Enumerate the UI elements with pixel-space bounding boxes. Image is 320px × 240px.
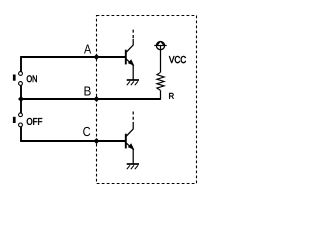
R label	[169, 93, 174, 99]
wire: Q2 emitter to ground	[132, 149, 134, 164]
wire: Q2 collector dashed stub	[132, 112, 134, 125]
ground below Q2	[127, 164, 139, 169]
transistor Q1 (NPN, base on node A)	[126, 45, 135, 66]
wire A horizontal (bus to Q1 base)	[20, 56, 126, 58]
wire: Q1 collector solid stub	[132, 39, 134, 45]
node A label	[84, 45, 91, 54]
transistor Q2 (NPN, base on node C)	[126, 129, 135, 150]
wire C horizontal (bus to Q2 base)	[20, 140, 126, 142]
node A junction dot	[94, 54, 100, 60]
component boundary dashed box	[97, 16, 197, 184]
node B junction dot	[94, 96, 100, 102]
wire: Q1 collector dashed stub	[132, 28, 134, 38]
junction dot on bus at node B	[18, 96, 24, 102]
wire: resistor R to node B	[160, 90, 162, 99]
wire: VCC to resistor R	[160, 49, 162, 72]
node B label	[84, 87, 90, 96]
wire: left bus segment OFF switch to C	[20, 127, 22, 142]
node C label	[83, 127, 90, 136]
VCC label	[169, 56, 186, 63]
ON value label	[27, 75, 37, 82]
wire: Q2 collector solid stub	[132, 124, 134, 129]
resistor R	[157, 72, 164, 90]
wire: left bus segment A to ON switch	[20, 56, 22, 71]
ground below Q1	[127, 80, 139, 85]
wire B horizontal (bus to resistor R)	[20, 98, 160, 100]
power symbol VCC	[154, 42, 166, 50]
wire: Q1 emitter to ground	[132, 65, 134, 80]
pushbutton switch OFF	[13, 113, 42, 127]
pushbutton switch ON	[13, 72, 37, 86]
wire: left bus segment ON switch to B junction	[20, 86, 22, 113]
OFF value label	[27, 118, 42, 125]
node C junction dot	[94, 138, 100, 144]
